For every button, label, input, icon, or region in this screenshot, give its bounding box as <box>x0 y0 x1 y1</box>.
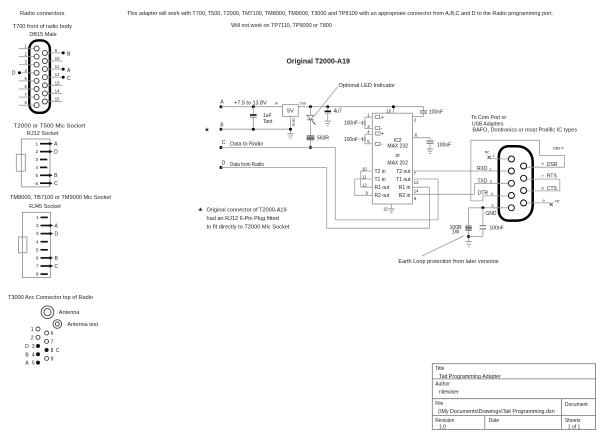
svg-text:1: 1 <box>36 215 39 220</box>
pin 15 ground <box>391 204 393 209</box>
op-amp IC2 box <box>372 113 412 204</box>
svg-text:8: 8 <box>51 348 54 354</box>
node D <box>220 166 223 169</box>
svg-text:9: 9 <box>51 356 54 362</box>
connector RJ45 body <box>22 212 50 277</box>
T3000 pin 2 <box>36 335 40 339</box>
RJ45 latch <box>19 237 27 253</box>
svg-text:DTR: DTR <box>478 190 489 196</box>
wire B line <box>221 128 291 130</box>
svg-text:RTS: RTS <box>547 174 558 180</box>
svg-text:CTS: CTS <box>547 186 558 192</box>
svg-text:Will not work on TP7110, TP900: Will not work on TP7110, TP9000 or T800 <box>231 23 332 29</box>
T3000 pin 3 <box>36 344 40 348</box>
svg-text:11: 11 <box>55 64 60 69</box>
RJ45 pin 5 <box>41 249 48 251</box>
ground symbol earth <box>466 242 472 247</box>
svg-text:100nF: 100nF <box>437 142 451 148</box>
svg-text:10: 10 <box>362 166 367 171</box>
svg-text:C2+: C2+ <box>375 131 384 137</box>
RJ45 pin 3 <box>41 233 50 235</box>
T3000 pin 1 <box>36 327 40 331</box>
resistor R1 560R <box>307 136 315 140</box>
pin 1 nc <box>491 158 508 160</box>
svg-text:nc: nc <box>555 199 559 204</box>
svg-text:Antenna test: Antenna test <box>67 322 98 328</box>
wire D line <box>221 167 327 169</box>
node B <box>220 128 223 131</box>
svg-text:2: 2 <box>36 223 39 228</box>
junction LED <box>309 105 312 108</box>
svg-text:4u7: 4u7 <box>334 109 343 115</box>
regulator U1 5V <box>283 105 299 117</box>
svg-text:+7.5 to 13.8V: +7.5 to 13.8V <box>234 100 267 106</box>
svg-text:5: 5 <box>35 173 38 178</box>
capacitor C7 100nF earth <box>482 208 484 226</box>
svg-text:DB9 F: DB9 F <box>553 146 564 150</box>
junction 4u7 <box>326 105 329 108</box>
svg-text:TXD: TXD <box>478 178 488 184</box>
wire loopback 11-9 <box>354 179 356 195</box>
svg-text:3: 3 <box>36 231 39 236</box>
svg-text:R2 out: R2 out <box>375 193 390 199</box>
svg-text:D: D <box>54 150 58 156</box>
svg-text:Antenna: Antenna <box>59 310 80 316</box>
svg-text:R1 out: R1 out <box>375 185 390 191</box>
junction 1uF top <box>252 105 255 108</box>
svg-text:C2-: C2- <box>375 142 383 148</box>
T3000 pin 4 <box>36 352 40 356</box>
RJ12 pin 5 <box>40 174 49 176</box>
svg-text:6: 6 <box>35 181 38 186</box>
node A <box>220 105 223 108</box>
pin 13 wire <box>412 178 438 180</box>
svg-text:Author: Author <box>435 382 450 388</box>
svg-text:11: 11 <box>362 174 367 179</box>
svg-text:3: 3 <box>490 180 492 184</box>
svg-text:15: 15 <box>383 206 388 211</box>
svg-text:(\My Documents\Drawings\Tait P: (\My Documents\Drawings\Tait Programming… <box>438 409 555 415</box>
svg-text:100nF: 100nF <box>429 110 443 116</box>
pin 14 wire <box>412 186 429 188</box>
svg-text:6: 6 <box>51 331 54 337</box>
svg-text:3: 3 <box>35 157 38 162</box>
svg-text:★: ★ <box>204 126 209 133</box>
svg-text:DB15 Male: DB15 Male <box>29 32 56 38</box>
T3000 pin 7 <box>45 339 49 343</box>
svg-text:100nF: 100nF <box>344 121 358 127</box>
wire C line <box>221 147 335 149</box>
svg-text:D: D <box>25 344 29 350</box>
svg-text:Tait Programming Adapter: Tait Programming Adapter <box>439 374 501 380</box>
svg-text:C: C <box>56 348 60 354</box>
DB15 pin numbers left <box>24 44 27 106</box>
svg-text:USB Adapters: USB Adapters <box>472 121 504 127</box>
svg-text:T700 front of radio body: T700 front of radio body <box>13 24 73 30</box>
node dot pin11 A <box>62 68 65 71</box>
pin 3 TXD wire <box>475 182 508 184</box>
svg-text:BAFO, Dontronics or most Proli: BAFO, Dontronics or most Prolific IC typ… <box>472 128 577 134</box>
wire A to regulator <box>221 106 283 108</box>
svg-text:Gnd: Gnd <box>292 118 297 126</box>
pin 7 wire to RXD <box>412 170 508 172</box>
RJ12 pin 1 <box>40 143 49 145</box>
DB15 left pin wires 1-8 <box>19 49 34 106</box>
node dot pin9 B <box>62 51 65 54</box>
svg-text:Date: Date <box>489 418 500 424</box>
svg-text:RJ12 Socket: RJ12 Socket <box>27 131 59 137</box>
svg-text:Original connector of T2000-A1: Original connector of T2000-A19 <box>207 207 287 213</box>
svg-text:1uF: 1uF <box>263 113 272 119</box>
pin 4-5 bracket capacitor C4 100nF <box>365 133 372 135</box>
svg-text:T1 out: T1 out <box>396 177 411 183</box>
resistor R2 100R <box>468 208 470 226</box>
wire D net to pin14 <box>326 168 328 229</box>
svg-text:Optional LED Indicator: Optional LED Indicator <box>339 83 396 89</box>
svg-text:5: 5 <box>32 361 35 367</box>
svg-text:RXD: RXD <box>477 166 488 172</box>
DB15 pin holes right column <box>42 50 47 104</box>
svg-text:D: D <box>222 160 226 166</box>
svg-text:Tant: Tant <box>263 119 273 125</box>
svg-text:1.0: 1.0 <box>439 424 446 430</box>
svg-text:10: 10 <box>55 56 60 61</box>
pin 1 bracket capacitor C3 100nF <box>365 116 372 118</box>
svg-text:1 of 1: 1 of 1 <box>568 424 581 430</box>
svg-text:Earth Loop protection from lat: Earth Loop protection from later version… <box>398 259 499 265</box>
svg-text:to fit directly to T2000 Mic S: to fit directly to T2000 Mic Socket <box>207 224 291 230</box>
pin 9 nc <box>527 202 550 204</box>
RJ45 pin 4 <box>41 241 48 243</box>
pin 2 capacitor C5 100nF <box>423 107 425 111</box>
callout line LED <box>315 87 338 115</box>
svg-text:1: 1 <box>35 141 38 146</box>
svg-text:C1+: C1+ <box>375 115 384 121</box>
svg-text:15: 15 <box>55 97 60 102</box>
svg-text:C: C <box>54 181 58 187</box>
svg-text:5V: 5V <box>287 109 294 115</box>
svg-text:1: 1 <box>493 154 495 158</box>
pin 7 RTS wire <box>527 178 560 180</box>
RJ45 pin 1 <box>41 216 48 218</box>
svg-text:or: or <box>395 153 400 159</box>
wire +5V rail <box>298 106 423 108</box>
T3000 pin 6 <box>45 331 49 335</box>
T3000 pin 5 <box>36 361 40 365</box>
svg-text:This adapter will work with T7: This adapter will work with T700, T500, … <box>127 11 553 17</box>
svg-text:560R: 560R <box>317 136 329 142</box>
svg-text:100nF: 100nF <box>490 225 504 231</box>
svg-text:2: 2 <box>31 335 34 341</box>
RJ45 pin 7 <box>41 265 50 267</box>
svg-text:had an RJ12 6-Pin Plug fitted: had an RJ12 6-Pin Plug fitted <box>207 216 280 222</box>
pin 10 loopback wire <box>361 170 373 172</box>
ground symbol pin6 cap <box>427 149 434 153</box>
LED D1 <box>310 107 312 116</box>
svg-text:16: 16 <box>386 108 391 113</box>
node C <box>220 146 223 149</box>
svg-text:D: D <box>12 71 16 77</box>
svg-text:13: 13 <box>55 80 60 85</box>
pin 5 GND wire <box>469 207 509 209</box>
ground symbol 4u7 <box>325 121 331 126</box>
connector J1 DB15 shell <box>29 40 50 112</box>
svg-text:Document: Document <box>565 402 588 408</box>
svg-text:14: 14 <box>55 88 60 93</box>
svg-text:DSR: DSR <box>547 162 558 168</box>
svg-text:Sheets: Sheets <box>565 418 581 424</box>
node dot pin4 D <box>18 71 21 74</box>
svg-text:nitewiser: nitewiser <box>439 390 459 396</box>
pin 6 capacitor C6 100nF <box>412 137 430 139</box>
svg-text:12: 12 <box>362 183 367 188</box>
capacitor C2 4u7 <box>327 107 329 111</box>
pin 8 wire to TXD <box>412 193 474 195</box>
svg-text:T2 out: T2 out <box>396 169 411 175</box>
svg-text:2: 2 <box>35 149 38 154</box>
RJ45 pin 2 <box>41 225 50 227</box>
svg-text:In: In <box>275 100 278 105</box>
pin 9 loopback wire <box>355 194 373 196</box>
wire C net to pin13 <box>334 148 336 220</box>
svg-text:★: ★ <box>198 207 203 214</box>
pin 16 <box>392 107 394 114</box>
svg-text:nc: nc <box>485 149 489 154</box>
svg-text:1W: 1W <box>452 230 460 236</box>
svg-text:13: 13 <box>414 180 419 185</box>
svg-text:9: 9 <box>543 199 545 203</box>
pin 4 DTR wire <box>483 195 508 197</box>
svg-text:5: 5 <box>36 247 39 252</box>
pin 11 loopback wire <box>355 178 373 180</box>
svg-text:100nF: 100nF <box>344 137 358 143</box>
T3000 antenna test connector <box>53 320 62 329</box>
T3000 pin 8 <box>45 348 49 352</box>
DB9 holes right <box>521 163 527 206</box>
pin 8 CTS wire <box>527 190 560 192</box>
regulator ground pin <box>290 116 292 134</box>
svg-text:Original T2000-A19: Original T2000-A19 <box>286 58 350 65</box>
LED arrows <box>312 121 315 125</box>
ground symbol regulator <box>287 134 294 138</box>
svg-text:Radio connectors: Radio connectors <box>20 11 65 17</box>
RJ12 pin 2 <box>40 151 49 153</box>
svg-text:4: 4 <box>35 165 38 170</box>
RJ12 pin 3 <box>40 159 47 161</box>
svg-text:Data from Radio: Data from Radio <box>230 162 264 168</box>
DB9 holes left <box>508 156 514 211</box>
node dot pin12 C <box>62 76 65 79</box>
svg-text:C: C <box>67 76 71 82</box>
svg-text:7: 7 <box>36 264 39 269</box>
svg-text:T3000 Acc Connector top of Rad: T3000 Acc Connector top of Radio <box>8 295 93 301</box>
svg-text:3: 3 <box>32 344 35 350</box>
wire loopback 10-12 <box>360 171 362 187</box>
svg-text:5: 5 <box>492 204 494 208</box>
svg-text:Data to Radio: Data to Radio <box>230 142 264 148</box>
svg-text:Title: Title <box>435 366 444 372</box>
svg-text:TM8000, TB7100 or TM9000 Mic: TM8000, TB7100 or TM9000 Mic Socket <box>10 195 111 201</box>
callout line earth loop <box>422 236 465 257</box>
DB15 pin holes left column <box>34 46 39 108</box>
svg-text:C: C <box>55 264 59 270</box>
DB15 pin numbers right <box>55 48 60 102</box>
svg-text:R2 in: R2 in <box>399 193 411 199</box>
T3000 antenna connector <box>41 306 54 319</box>
svg-text:D: D <box>55 232 59 238</box>
T3000 pin 9 <box>45 356 49 360</box>
svg-text:T1 in: T1 in <box>375 177 386 183</box>
svg-text:12: 12 <box>55 72 60 77</box>
svg-text:7: 7 <box>51 339 54 345</box>
svg-text:4: 4 <box>32 352 35 358</box>
svg-text:File: File <box>435 401 443 407</box>
svg-text:R1 in: R1 in <box>399 185 411 191</box>
svg-text:Revision: Revision <box>435 418 454 424</box>
svg-text:GND: GND <box>485 211 497 217</box>
svg-text:T2 in: T2 in <box>375 169 386 175</box>
svg-text:Out: Out <box>300 100 307 105</box>
RJ45 pin 6 <box>41 257 50 259</box>
svg-text:8: 8 <box>542 187 544 191</box>
title block frame <box>432 364 595 430</box>
svg-text:MAX 232: MAX 232 <box>387 143 408 149</box>
svg-text:14: 14 <box>414 188 419 193</box>
svg-text:2: 2 <box>489 167 491 171</box>
pin 12 loopback wire <box>361 186 373 188</box>
svg-text:T2000 or T500 Mic Socket: T2000 or T500 Mic Socket <box>14 123 86 129</box>
DB15 right pin wires 9-15 <box>48 53 63 102</box>
RJ12 pin 4 <box>40 166 47 168</box>
RJ45 pin 8 <box>41 273 48 275</box>
svg-text:6: 6 <box>36 256 39 261</box>
connector RJ12 body <box>21 139 50 187</box>
RJ12 pin 6 <box>40 182 49 184</box>
svg-text:RJ45 Socket: RJ45 Socket <box>29 204 61 210</box>
svg-text:8: 8 <box>36 272 39 277</box>
svg-text:1: 1 <box>31 327 34 333</box>
svg-text:6: 6 <box>542 162 544 166</box>
svg-text:7: 7 <box>542 174 544 178</box>
svg-text:4: 4 <box>36 239 39 244</box>
connector J2 DB9 shell <box>499 146 533 220</box>
svg-text:MAX 202: MAX 202 <box>387 160 408 166</box>
svg-text:4: 4 <box>491 192 493 196</box>
svg-text:C: C <box>222 140 226 146</box>
capacitor 1uF tant <box>252 107 254 114</box>
RJ12 latch <box>16 154 25 171</box>
svg-text:To Com Port or: To Com Port or <box>471 115 507 121</box>
